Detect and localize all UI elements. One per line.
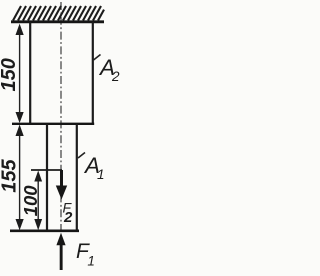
svg-text:2: 2 xyxy=(63,209,73,226)
svg-text:100: 100 xyxy=(20,185,41,217)
ground (ceiling hatch) xyxy=(13,6,104,21)
svg-text:150: 150 xyxy=(0,58,20,91)
svg-text:155: 155 xyxy=(0,159,20,193)
wire (narrow bar left edge, area A1) xyxy=(46,124,48,231)
dimension 150 line xyxy=(19,26,21,120)
node centerline (dash-dot axis) xyxy=(60,2,62,233)
wire (step shoulder line) xyxy=(12,123,94,125)
force F1 arrow (upward at bottom end) xyxy=(56,233,65,245)
force F2 arrow (downward inside bar) xyxy=(60,170,63,187)
wire (bar bottom end line) xyxy=(10,230,79,233)
leader for A2 xyxy=(94,55,101,61)
dimension 155 line xyxy=(19,128,21,227)
wire (wide bar right edge, area A2) xyxy=(92,22,94,125)
wire (narrow bar right edge, area A1) xyxy=(76,124,78,231)
leader for A1 xyxy=(78,153,85,159)
dimension 100 line xyxy=(37,173,39,227)
ground (ceiling line) xyxy=(11,20,104,23)
wire (wide bar left edge, area A2) xyxy=(29,22,31,125)
wire (tick at F2 application level) xyxy=(31,169,62,171)
